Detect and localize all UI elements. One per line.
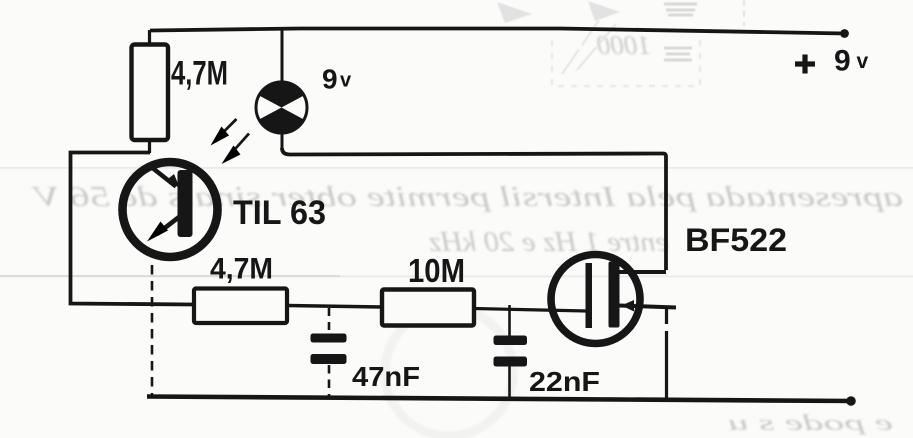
capacitor C2 22nF bbox=[494, 305, 528, 397]
label: 9v (lamp) bbox=[322, 64, 352, 95]
svg-text:apresentada pela Intersil perm: apresentada pela Intersil permite obter … bbox=[30, 181, 903, 213]
bleed-through text bottom right (mirrored) bbox=[728, 410, 893, 435]
svg-text:22nF: 22nF bbox=[529, 366, 600, 397]
resistor R1 4,7M (vertical) bbox=[132, 30, 169, 153]
node: bottom rail end dot bbox=[846, 396, 856, 406]
wire: emitter to bottom rail (dashed) bbox=[151, 265, 154, 396]
svg-text:9: 9 bbox=[322, 64, 338, 95]
phototransistor Q1 TIL63 bbox=[123, 162, 218, 257]
light arrow 2 bbox=[222, 134, 250, 165]
lamp LP1 bbox=[256, 29, 307, 149]
svg-text:47nF: 47nF bbox=[352, 361, 420, 392]
resistor R2 4,7M (horizontal) bbox=[194, 289, 287, 324]
node: +9V terminal dot bbox=[840, 29, 849, 38]
capacitor C1 47nF bbox=[311, 308, 347, 396]
bleed-through dashed outline bbox=[552, 0, 744, 86]
resistor R3 10M bbox=[382, 290, 474, 326]
svg-text:v: v bbox=[340, 70, 352, 92]
svg-text:e pode s u: e pode s u bbox=[728, 410, 893, 435]
svg-text:BF522: BF522 bbox=[685, 222, 787, 258]
svg-text:4,7M: 4,7M bbox=[210, 253, 273, 286]
svg-text:TIL 63: TIL 63 bbox=[233, 194, 326, 232]
svg-text:4,7M: 4,7M bbox=[171, 55, 228, 93]
bleed-through 1000 label (mirrored) bbox=[597, 30, 652, 60]
wire: R2 to R3 bbox=[287, 306, 382, 308]
wire: source to bottom rail bbox=[665, 308, 668, 399]
bleed-through text line 1 (mirrored) bbox=[30, 181, 903, 213]
svg-text:9: 9 bbox=[834, 45, 851, 78]
watermark ring bbox=[385, 308, 513, 436]
scan artifact line A bbox=[0, 167, 913, 169]
svg-text:1000: 1000 bbox=[597, 30, 652, 60]
bleed-through figure marks top bbox=[497, 1, 620, 23]
light arrow 1 bbox=[211, 119, 237, 146]
label: +9V bbox=[795, 45, 869, 78]
wire: left loop bbox=[71, 153, 194, 305]
wire: R3 to gate bbox=[474, 309, 587, 312]
svg-text:v: v bbox=[857, 50, 869, 73]
scan artifact line B bbox=[0, 275, 340, 277]
wire: +9V top rail bbox=[150, 29, 845, 34]
bleed-through text line 2 (mirrored) bbox=[429, 227, 669, 258]
wire: bottom rail bbox=[147, 397, 855, 402]
bleed-through capacitor dashes bbox=[664, 4, 697, 60]
wire: lamp to drain (top horizontal run) bbox=[282, 148, 666, 270]
MOSFET Q2 BF522 bbox=[551, 255, 676, 344]
svg-text:10M: 10M bbox=[408, 252, 465, 289]
